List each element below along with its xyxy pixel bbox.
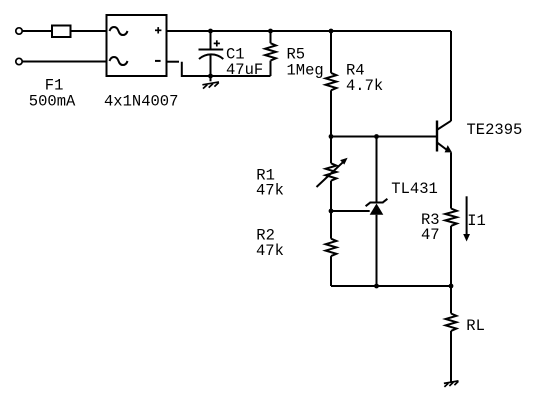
svg-text:TE2395: TE2395 — [467, 121, 523, 139]
node base rail / R4 / R1 — [329, 134, 334, 139]
wire top rail (+) — [167, 30, 452, 32]
svg-text:4.7k: 4.7k — [346, 77, 383, 95]
ground (under RL) — [444, 381, 459, 387]
ground (under C1) — [202, 76, 219, 89]
node bottom rail / R3 / RL — [449, 284, 454, 289]
node top-rail / R4 — [329, 29, 334, 34]
svg-text:500mA: 500mA — [29, 92, 76, 110]
node top-rail / C1 — [208, 29, 213, 34]
capacitor C1 — [199, 31, 224, 76]
C1 plus polarity mark — [214, 40, 220, 46]
R1 wiper arrow — [317, 158, 348, 187]
svg-text:47k: 47k — [256, 242, 284, 260]
resistor RL — [446, 286, 457, 382]
node base rail / TL431 — [374, 134, 379, 139]
resistor R4 — [326, 31, 337, 137]
node R1 / R2 / ref — [329, 209, 334, 214]
wire base rail (R4 to base) — [331, 136, 436, 138]
fuse F1 — [52, 26, 71, 38]
wire bottom rail — [331, 285, 451, 287]
wire terminal-bottom to bridge — [22, 61, 106, 63]
wire bridge minus to ground rail — [182, 62, 271, 76]
input terminal top — [16, 28, 22, 34]
wire terminal-top to fuse — [22, 30, 52, 32]
svg-text:RL: RL — [466, 317, 485, 335]
svg-text:47: 47 — [421, 226, 440, 244]
node bottom rail / TL431 — [374, 284, 379, 289]
wire bridge minus stub — [167, 61, 180, 63]
svg-text:I1: I1 — [467, 212, 486, 230]
bridge AC sine bottom — [110, 57, 128, 65]
potentiometer R1 — [326, 137, 337, 212]
resistor R3 — [445, 209, 457, 287]
bridge rectifier 4x1N4007 box — [107, 15, 167, 76]
svg-text:47k: 47k — [256, 181, 284, 199]
bridge plus mark — [155, 27, 161, 33]
resistor R2 — [326, 211, 337, 286]
svg-text:4x1N4007: 4x1N4007 — [104, 92, 178, 110]
svg-text:1Meg: 1Meg — [287, 61, 324, 79]
resistor R5 — [265, 31, 276, 76]
wire ref (R1R2 junction to TL431) — [331, 210, 370, 212]
wire fuse to bridge — [71, 30, 107, 32]
transistor Q1 TE2395 — [437, 31, 452, 209]
node top-rail / R5 — [268, 29, 273, 34]
bridge minus mark — [155, 60, 161, 62]
shunt regulator TL431 — [366, 137, 388, 287]
svg-text:TL431: TL431 — [391, 180, 438, 198]
svg-text:47uF: 47uF — [226, 61, 263, 79]
current arrow I1 — [463, 196, 470, 241]
node C1 / ground rail — [208, 74, 213, 79]
input terminal bottom — [16, 58, 22, 64]
bridge AC sine top — [110, 27, 128, 35]
